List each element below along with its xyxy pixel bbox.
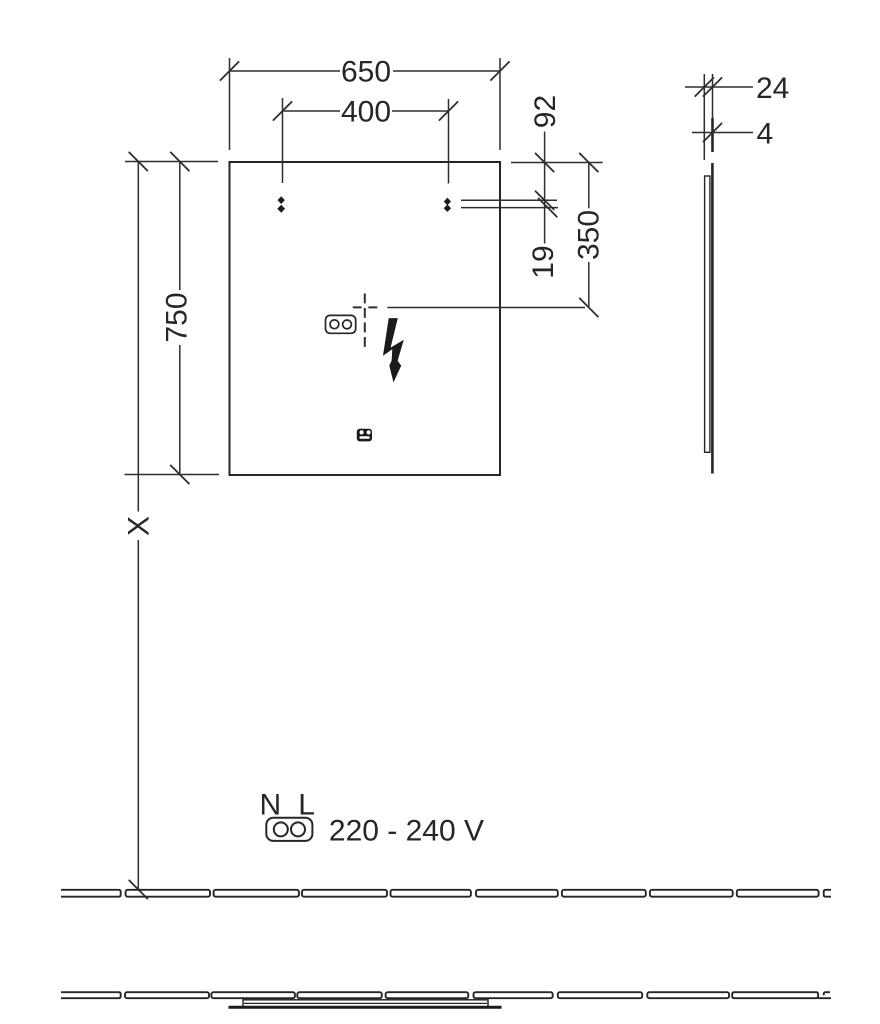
dimension line 350 — [588, 163, 590, 209]
tick 92 bottom / 19 top — [535, 191, 554, 210]
mounting hole left pair — [278, 196, 285, 204]
svg-text:750: 750 — [161, 292, 194, 342]
tick 650 right — [490, 61, 509, 80]
tick 400 right — [439, 101, 458, 120]
hole reference line upper — [461, 199, 557, 201]
dimension line 400 — [283, 110, 341, 112]
shelf outline — [243, 1000, 488, 1007]
extension line right of 400 — [448, 99, 450, 184]
tick 650 left — [220, 61, 239, 80]
side view extension line left — [703, 74, 705, 160]
extension line left of 650 — [229, 58, 231, 150]
svg-text:400: 400 — [341, 96, 391, 129]
extension line right of 650 — [499, 58, 501, 150]
dimension line 24 — [685, 86, 753, 88]
tick 750 bottom — [170, 465, 189, 484]
tick 4 — [703, 123, 722, 142]
svg-text:92: 92 — [529, 95, 562, 128]
connector icon small — [357, 429, 372, 442]
dimension line 750 — [179, 162, 181, 291]
dimension line 92 and 19 — [544, 132, 546, 244]
side view mirror glass — [711, 163, 714, 474]
extension line left of 400 — [282, 98, 284, 183]
svg-text:350: 350 — [573, 210, 606, 260]
dimension line 4 — [692, 132, 753, 134]
wall line row 2 — [61, 992, 831, 998]
tick 19 bottom — [538, 198, 557, 217]
side view back panel — [705, 176, 710, 452]
dimension line X — [137, 162, 139, 512]
svg-text:L: L — [298, 789, 315, 822]
tick 350 bottom — [579, 298, 598, 317]
extension line bottom left horizontal — [125, 474, 220, 476]
tick 24 left — [695, 77, 714, 96]
side view extension line right thick — [711, 118, 714, 152]
mirror front view outline — [230, 162, 501, 475]
svg-text:N: N — [259, 789, 281, 822]
centre mark dashed vertical — [364, 294, 366, 348]
extension line top right horizontal — [511, 162, 603, 164]
wall line row 1 — [61, 890, 831, 897]
lightning bolt — [383, 318, 404, 382]
shelf middle line — [244, 1002, 487, 1004]
svg-text:24: 24 — [756, 72, 789, 105]
tick 92 top — [535, 153, 554, 172]
side view extension line right thin — [712, 74, 714, 118]
hole reference line lower — [461, 207, 558, 209]
tick X top — [129, 152, 148, 171]
tick 750 top — [170, 152, 189, 171]
tick 400 left — [273, 101, 292, 120]
svg-text:4: 4 — [757, 118, 774, 151]
svg-text:650: 650 — [341, 56, 391, 89]
tick 24 right — [703, 77, 722, 96]
dimension line 650 — [230, 70, 341, 72]
socket symbol small — [326, 315, 356, 333]
tick X bottom — [129, 880, 148, 899]
svg-text:19: 19 — [527, 245, 560, 278]
svg-text:220 - 240 V: 220 - 240 V — [329, 815, 484, 848]
socket symbol large — [266, 818, 312, 841]
svg-text:X: X — [123, 516, 156, 536]
extension line top left horizontal — [125, 161, 218, 163]
mounting hole right pair — [444, 198, 451, 206]
centre mark dashed horizontal — [353, 306, 377, 308]
leader line to 350 — [387, 307, 585, 309]
shelf thick base line — [229, 1006, 502, 1009]
tick 350 top — [579, 153, 598, 172]
